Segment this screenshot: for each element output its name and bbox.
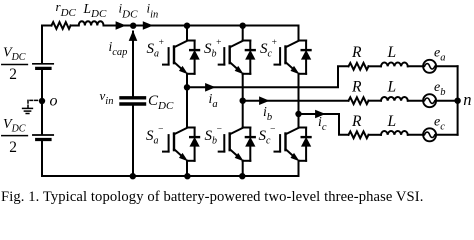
- ac source e_b: [423, 94, 436, 107]
- ac source e_c: [423, 128, 436, 141]
- svg-text:LDC: LDC: [83, 1, 107, 20]
- battery V_DC/2 upper plate short: [37, 67, 50, 70]
- junction dc input node: [130, 23, 136, 29]
- wire phase b R-L: [369, 100, 382, 102]
- svg-text:Sc−: Sc−: [259, 125, 276, 146]
- node a junction: [184, 84, 190, 90]
- wire phase c L-source: [408, 134, 423, 136]
- battery V_DC/2 upper plate long: [33, 63, 53, 65]
- resistor R phase a: [349, 63, 369, 70]
- wire phase b L-source: [408, 100, 423, 102]
- svg-text:eb: eb: [434, 80, 445, 98]
- wire neutral bus: [457, 66, 459, 135]
- arrow i_b: [260, 97, 269, 104]
- arrow i_c: [316, 110, 325, 117]
- svg-text:ea: ea: [434, 46, 445, 64]
- wire phase a source-bus: [436, 65, 458, 67]
- node o: [39, 98, 45, 104]
- IGBT S_b-: [219, 128, 255, 161]
- svg-text:icap: icap: [109, 39, 128, 58]
- wire left vertical: [41, 26, 43, 177]
- arrow i_cap: [129, 32, 136, 41]
- IGBT S_c+: [275, 41, 311, 74]
- svg-text:VDC: VDC: [3, 46, 26, 63]
- junction leg A bottom: [184, 173, 190, 179]
- node n: [454, 98, 460, 104]
- svg-text:L: L: [387, 44, 397, 61]
- svg-text:R: R: [351, 79, 362, 96]
- IGBT S_b+: [219, 41, 255, 74]
- wire phase a L-source: [408, 65, 423, 67]
- svg-text:R: R: [351, 44, 362, 61]
- battery V_DC/2 lower plate short: [37, 138, 50, 141]
- node b junction: [240, 98, 246, 104]
- junction capacitor bottom: [130, 173, 136, 179]
- arrow i_DC: [116, 22, 125, 29]
- svg-text:iDC: iDC: [119, 1, 139, 21]
- junction leg B bottom: [239, 173, 245, 179]
- wire phase c R-L: [369, 134, 382, 136]
- leg B vertical wire: [242, 26, 244, 177]
- ground: [23, 100, 40, 113]
- svg-text:ec: ec: [434, 114, 445, 132]
- wire capacitor bottom: [132, 106, 134, 176]
- svg-text:iin: iin: [147, 1, 159, 21]
- wire phase a: [187, 66, 349, 87]
- IGBT S_c-: [275, 128, 311, 161]
- svg-text:Sb+: Sb+: [204, 38, 222, 59]
- svg-text:o: o: [50, 92, 58, 109]
- arrow i_in: [143, 22, 152, 29]
- svg-text:VDC: VDC: [3, 117, 26, 134]
- svg-text:R: R: [351, 113, 362, 130]
- resistor R phase c: [349, 131, 369, 138]
- junction leg A top: [184, 23, 190, 29]
- inductor L phase a: [381, 63, 408, 67]
- svg-text:vin: vin: [100, 88, 114, 107]
- svg-text:Sb−: Sb−: [205, 125, 223, 146]
- svg-text:ic: ic: [318, 114, 327, 133]
- svg-text:L: L: [387, 113, 397, 130]
- IGBT S_a+: [163, 41, 199, 74]
- svg-text:2: 2: [9, 66, 17, 83]
- IGBT S_a-: [163, 128, 199, 161]
- resistor r_DC: [52, 22, 71, 29]
- svg-text:2: 2: [9, 139, 17, 156]
- leg A vertical wire: [186, 26, 188, 177]
- wire phase b source-bus: [436, 100, 458, 102]
- wire capacitor top / i_cap: [132, 32, 134, 96]
- svg-text:ib: ib: [263, 104, 272, 123]
- svg-text:ia: ia: [209, 91, 218, 110]
- resistor R phase b: [349, 97, 369, 104]
- svg-text:CDC: CDC: [148, 93, 174, 112]
- wire phase a R-L: [369, 65, 382, 67]
- wire phase c: [299, 114, 349, 135]
- ac source e_a: [423, 60, 436, 73]
- wire top rail: [42, 25, 299, 27]
- inductor L phase b: [381, 97, 408, 101]
- junction leg B top: [240, 23, 246, 29]
- inductor L phase c: [381, 131, 408, 135]
- node c junction: [295, 111, 301, 117]
- svg-text:L: L: [387, 79, 397, 96]
- svg-text:Sa−: Sa−: [146, 125, 164, 146]
- battery V_DC/2 lower plate long: [33, 134, 53, 136]
- leg C vertical wire: [298, 26, 300, 177]
- capacitor C_DC plate bottom: [121, 102, 145, 105]
- capacitor C_DC plate top: [121, 96, 145, 99]
- svg-text:Sc+: Sc+: [260, 38, 277, 59]
- svg-text:rDC: rDC: [56, 0, 77, 19]
- arrow i_a: [206, 84, 215, 91]
- svg-text:Sa+: Sa+: [147, 38, 165, 59]
- inductor L_DC: [79, 21, 104, 25]
- wire phase c source-bus: [436, 134, 458, 136]
- wire phase b: [243, 100, 349, 102]
- wire bottom rail: [42, 175, 299, 177]
- svg-text:Fig. 1. Typical topology of b: Fig. 1. Typical topology of battery-powe…: [1, 189, 423, 204]
- svg-text:n: n: [463, 90, 471, 109]
